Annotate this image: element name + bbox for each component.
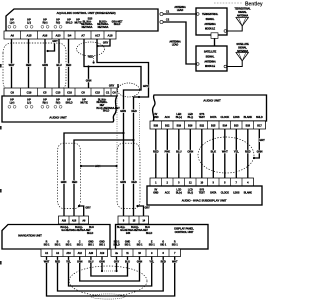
- svg-text:ORN: ORN: [187, 150, 193, 154]
- svg-text:BL(-): BL(-): [188, 191, 194, 194]
- wire GRN to display panel control unit: [123, 133, 125, 216]
- svg-text:A15: A15: [27, 34, 32, 38]
- svg-text:SHLD: SHLD: [256, 116, 263, 119]
- svg-text:TEST: TEST: [199, 116, 206, 119]
- svg-text:RED: RED: [153, 150, 159, 154]
- svg-text:RED: RED: [245, 150, 251, 154]
- svg-text:A16: A16: [42, 34, 47, 38]
- svg-text:GRY: GRY: [144, 206, 150, 210]
- svg-text:SIG 1: SIG 1: [55, 244, 62, 247]
- watermark Bentley: [214, 2, 263, 8]
- svg-text:DATA: DATA: [210, 191, 216, 194]
- wire WHT audio to subdisplay: [224, 129, 226, 178]
- svg-text:C6: C6: [112, 91, 116, 95]
- svg-text:GRY: GRY: [259, 138, 265, 142]
- unit: audio unit (left) box: [2, 96, 117, 122]
- svg-text:WHT: WHT: [9, 63, 15, 67]
- svg-text:AUDIO UNIT: AUDIO UNIT: [49, 116, 67, 120]
- shield drain GRY to display pin 14: [138, 206, 144, 216]
- svg-text:ANTENNA: ANTENNA: [204, 23, 216, 26]
- wire GRN from A7 down, right, down, left: [84, 39, 141, 133]
- svg-text:GRN: GRN: [257, 150, 263, 154]
- svg-text:B20: B20: [154, 125, 159, 128]
- svg-text:A19: A19: [100, 252, 105, 255]
- wire RED to display panel control unit: [133, 140, 135, 216]
- connector pins 5 15 14 (display panel control unit): [118, 216, 149, 224]
- svg-text:RED: RED: [88, 55, 93, 59]
- svg-text:CLOCK: CLOCK: [221, 116, 230, 119]
- svg-text:C8: C8: [81, 91, 85, 95]
- wire colors display: GRY BLU GRN YEL RED WHT: [116, 257, 118, 265]
- connector C1 on aqualink unit: [160, 12, 163, 15]
- wire RED link nav to display: [58, 263, 164, 291]
- svg-text:SIG 1: SIG 1: [66, 244, 73, 247]
- svg-text:GRN: GRN: [95, 164, 101, 168]
- svg-text:R(+): R(+): [42, 101, 47, 105]
- svg-text:GRY: GRY: [52, 39, 58, 43]
- svg-text:ANTENNA: ANTENNA: [237, 14, 249, 17]
- svg-text:LDSS: LDSS: [233, 191, 240, 194]
- connector pins B20 B12 B19 B16 B22 B15 B14 B13 B18 B17: [150, 121, 266, 129]
- svg-text:RED: RED: [131, 109, 136, 113]
- wire SYS TEST audio to subdisplay: [201, 129, 203, 178]
- svg-text:C13: C13: [56, 91, 61, 95]
- svg-text:GRY: GRY: [85, 206, 91, 210]
- unit: aqualink control unit (w/receiver) box: [6, 9, 158, 31]
- wire GRN branch into audio unit pin C8: [88, 67, 90, 89]
- svg-text:BLK: BLK: [211, 150, 216, 154]
- svg-text:NET/GSA: NET/GSA: [82, 26, 93, 29]
- shield link dotted nav GRN to display GRY: [101, 263, 103, 271]
- wire colors nav: WHT RED YEL GRN BLU GRN: [46, 257, 48, 265]
- unit: display panel control unit box: [116, 225, 209, 250]
- wire RED to navigation unit: [73, 152, 75, 216]
- svg-text:A18: A18: [108, 34, 113, 38]
- wire RED audio to subdisplay: [247, 129, 249, 178]
- svg-text:A23: A23: [56, 34, 61, 38]
- svg-text:BLANK: BLANK: [244, 116, 253, 119]
- unit: audio unit (right) box: [153, 95, 267, 121]
- svg-text:B15: B15: [211, 125, 216, 128]
- svg-text:B12: B12: [165, 125, 170, 128]
- svg-text:G43: G43: [126, 232, 131, 235]
- connector pins C9 C19 C5 C13 C10 C8 C15 C1 on audio unit: [4, 88, 117, 96]
- svg-text:BL(+): BL(+): [176, 116, 182, 119]
- svg-text:SATELLITE: SATELLITE: [204, 51, 217, 54]
- svg-text:NAVIGATION UNIT: NAVIGATION UNIT: [18, 234, 42, 238]
- scan edge artifacts: [0, 64, 2, 68]
- svg-text:C1: C1: [106, 91, 110, 95]
- svg-text:B18: B18: [246, 125, 251, 128]
- wire GRN jog left below audio unit: [64, 133, 124, 152]
- svg-text:SIG 1: SIG 1: [172, 244, 179, 247]
- unit: satellite signal antenna module box: [196, 46, 227, 71]
- svg-text:B4: B4: [68, 34, 72, 38]
- svg-text:RED: RED: [72, 180, 77, 184]
- svg-text:GRY: GRY: [143, 84, 149, 88]
- shield jumper GRN between capsules: [81, 165, 118, 167]
- wire RED from pin to audio unit: [68, 39, 70, 88]
- svg-text:GRN: GRN: [120, 109, 126, 113]
- bottom dotted shield marker: [91, 294, 125, 299]
- svg-text:SHLD: SHLD: [103, 110, 110, 113]
- svg-text:BL(-): BL(-): [188, 116, 194, 119]
- svg-text:ACC: ACC: [165, 116, 170, 119]
- svg-text:AUDIO UNIT: AUDIO UNIT: [203, 99, 221, 103]
- svg-text:MODULE: MODULE: [205, 65, 215, 68]
- svg-text:GRY: GRY: [103, 41, 109, 45]
- svg-text:LEAD: LEAD: [177, 9, 184, 12]
- svg-text:GRN: GRN: [61, 180, 67, 184]
- svg-text:TEST: TEST: [199, 191, 205, 194]
- wire RED audio to subdisplay: [155, 129, 157, 178]
- svg-text:GRN: GRN: [120, 180, 126, 184]
- shield drain GRY from pin A18: [98, 39, 110, 46]
- svg-text:BLU: BLU: [56, 63, 61, 67]
- svg-text:BLANK: BLANK: [244, 191, 252, 194]
- svg-text:WHT: WHT: [222, 150, 228, 154]
- svg-text:A10: A10: [66, 252, 71, 255]
- svg-text:TERRESTRIAL: TERRESTRIAL: [202, 13, 219, 16]
- wire BLK audio to subdisplay: [212, 129, 214, 178]
- wire GRN link nav to display: [80, 263, 140, 281]
- wire BLU link nav to display: [91, 263, 128, 276]
- svg-text:SHLD: SHLD: [114, 23, 121, 26]
- unit: navigation unit box: [2, 225, 110, 250]
- svg-text:RED: RED: [26, 63, 31, 67]
- wire WHT link nav to display: [47, 263, 175, 296]
- svg-text:A20: A20: [89, 252, 94, 255]
- svg-text:GND: GND: [153, 116, 159, 119]
- junction shield to corner: [138, 96, 140, 98]
- svg-text:AQUALINK CONTROL UNIT (W/RECEI: AQUALINK CONTROL UNIT (W/RECEIVER): [56, 11, 115, 15]
- wire ORN audio to subdisplay: [189, 129, 191, 178]
- wire YEL audio to subdisplay: [235, 129, 237, 178]
- wire RED from pin to audio unit: [28, 39, 30, 88]
- svg-text:C19: C19: [27, 91, 32, 95]
- shielded twisted-quad capsule: [3, 43, 66, 91]
- svg-text:A19: A19: [62, 220, 67, 223]
- svg-text:B16: B16: [188, 125, 193, 128]
- svg-text:MUTE: MUTE: [80, 101, 88, 105]
- shield ellipse around pair at transition: [118, 83, 140, 97]
- svg-text:SHLD: SHLD: [65, 101, 72, 105]
- wire PNK audio to subdisplay: [166, 129, 168, 178]
- data bundle shield ellipse: [198, 137, 254, 173]
- speaker polarity symbols: [8, 25, 11, 28]
- svg-text:PNK: PNK: [165, 150, 171, 154]
- svg-text:SIG 1: SIG 1: [77, 244, 84, 247]
- connector pins A1 A2 A10 A12 A20 A19: [41, 249, 108, 257]
- svg-text:B14: B14: [223, 125, 228, 128]
- svg-text:DATA: DATA: [210, 116, 217, 119]
- antenna lead wire C2 to satellite module: [163, 22, 196, 64]
- svg-text:GRY: GRY: [109, 84, 115, 88]
- wire GRN from pin to audio unit: [44, 39, 46, 88]
- svg-text:CONTROL UNIT: CONTROL UNIT: [175, 230, 194, 234]
- bottom interconnect ellipse (twisted bundle): [69, 266, 147, 296]
- svg-text:C5: C5: [43, 91, 47, 95]
- svg-text:SIGNAL: SIGNAL: [206, 55, 215, 58]
- wire BLU audio to subdisplay: [178, 129, 180, 178]
- unit: audio - hvac subdisplay unit box: [147, 186, 262, 205]
- svg-text:B17: B17: [257, 125, 262, 128]
- wire RED from A17 down, right, down, left: [97, 39, 149, 140]
- svg-text:L(-): L(-): [27, 20, 31, 24]
- shield ellipse around GRN/RED pair: [77, 42, 105, 56]
- wire WHT from pin to audio unit: [11, 39, 13, 88]
- left twisted pair capsule: [58, 143, 81, 208]
- svg-text:AUDIO - HVAC SUBDISPLAY UNIT: AUDIO - HVAC SUBDISPLAY UNIT: [182, 199, 227, 203]
- svg-text:B19: B19: [177, 125, 182, 128]
- shield drain GRY elbow: [48, 44, 54, 52]
- shield dotted runs: [116, 96, 118, 152]
- svg-text:SIG 1: SIG 1: [88, 244, 95, 247]
- svg-text:C10: C10: [67, 91, 72, 95]
- svg-text:R(-): R(-): [56, 20, 60, 24]
- svg-text:YEL: YEL: [234, 150, 239, 154]
- svg-text:MODULE: MODULE: [205, 28, 215, 31]
- svg-text:L(+): L(+): [10, 101, 15, 105]
- svg-text:L(-): L(-): [27, 101, 31, 105]
- svg-text:SIG 1: SIG 1: [149, 244, 156, 247]
- wire BLU from pin to audio unit: [58, 39, 60, 88]
- connector pins A19 A18 A9 (navigation unit): [59, 216, 89, 224]
- svg-text:B13: B13: [234, 125, 239, 128]
- svg-text:B22: B22: [200, 125, 205, 128]
- svg-text:SIGNAL: SIGNAL: [206, 18, 215, 21]
- unit: terrestrial signal antenna module box: [196, 8, 227, 35]
- svg-text:ACC: ACC: [165, 191, 170, 194]
- wire GRN shield drain from SHLD pin: [255, 129, 260, 158]
- svg-text:BL(+): BL(+): [176, 191, 182, 194]
- svg-text:A18: A18: [72, 220, 77, 223]
- svg-text:SIG 1: SIG 1: [160, 244, 167, 247]
- svg-text:GRN: GRN: [86, 79, 92, 83]
- svg-text:SHLD: SHLD: [146, 232, 153, 235]
- module interconnect: [211, 33, 218, 39]
- svg-text:SIG 1: SIG 1: [125, 244, 132, 247]
- svg-text:GA-NET/GA-NET/GA-NET: GA-NET/GA-NET/GA-NET: [120, 229, 148, 232]
- svg-text:A12: A12: [78, 252, 83, 255]
- svg-text:R(-): R(-): [56, 101, 61, 105]
- connector C2 on aqualink unit: [160, 20, 163, 23]
- connector pins 2a 11 18 9 8 7: [111, 249, 181, 257]
- svg-text:LEAD: LEAD: [172, 44, 179, 47]
- svg-text:GRN: GRN: [42, 63, 48, 67]
- shield dotted drop to jog: [93, 56, 95, 63]
- svg-text:A7: A7: [81, 34, 85, 38]
- svg-text:BLU: BLU: [176, 150, 181, 154]
- svg-text:CLOCK: CLOCK: [221, 191, 230, 194]
- wire RED jog left below audio unit: [74, 140, 134, 152]
- svg-text:LDSS: LDSS: [233, 116, 240, 119]
- svg-text:SIG 1: SIG 1: [137, 244, 144, 247]
- svg-text:R(+): R(+): [43, 20, 48, 24]
- svg-text:SHLD: SHLD: [66, 20, 73, 24]
- svg-text:RED: RED: [131, 180, 136, 184]
- shield drain GRY to audio unit cell: [117, 84, 119, 88]
- svg-text:NET/GSA: NET/GSA: [98, 26, 109, 29]
- shield drain GRY to nav pin A9: [79, 206, 84, 216]
- svg-text:C15: C15: [95, 91, 100, 95]
- svg-text:SHLD: SHLD: [113, 244, 120, 247]
- svg-text:C9: C9: [11, 91, 15, 95]
- wire GRN to navigation unit: [63, 152, 65, 216]
- svg-text:GND: GND: [153, 191, 158, 194]
- svg-text:SIG 1: SIG 1: [44, 244, 51, 247]
- svg-text:SHLD: SHLD: [87, 232, 94, 235]
- svg-text:L(+): L(+): [10, 20, 15, 24]
- svg-text:ANTENNA: ANTENNA: [204, 60, 216, 63]
- svg-text:A17: A17: [95, 34, 100, 38]
- wire YEL link nav to display: [69, 263, 152, 286]
- antenna lead wire C1 to terrestrial module: [163, 13, 196, 15]
- connector pins A6 A15 A16 A23 B4 A7 A17 A18: [4, 31, 116, 39]
- svg-text:RED: RED: [66, 63, 71, 67]
- svg-text:DISPLAY PANEL: DISPLAY PANEL: [174, 226, 194, 230]
- right twisted pair capsule: [117, 143, 140, 208]
- connector pins 1 2 3 12 10 3 5 7 4 (subdisplay): [150, 178, 254, 186]
- svg-text:SIG 1: SIG 1: [99, 244, 106, 247]
- svg-text:A6: A6: [10, 34, 14, 38]
